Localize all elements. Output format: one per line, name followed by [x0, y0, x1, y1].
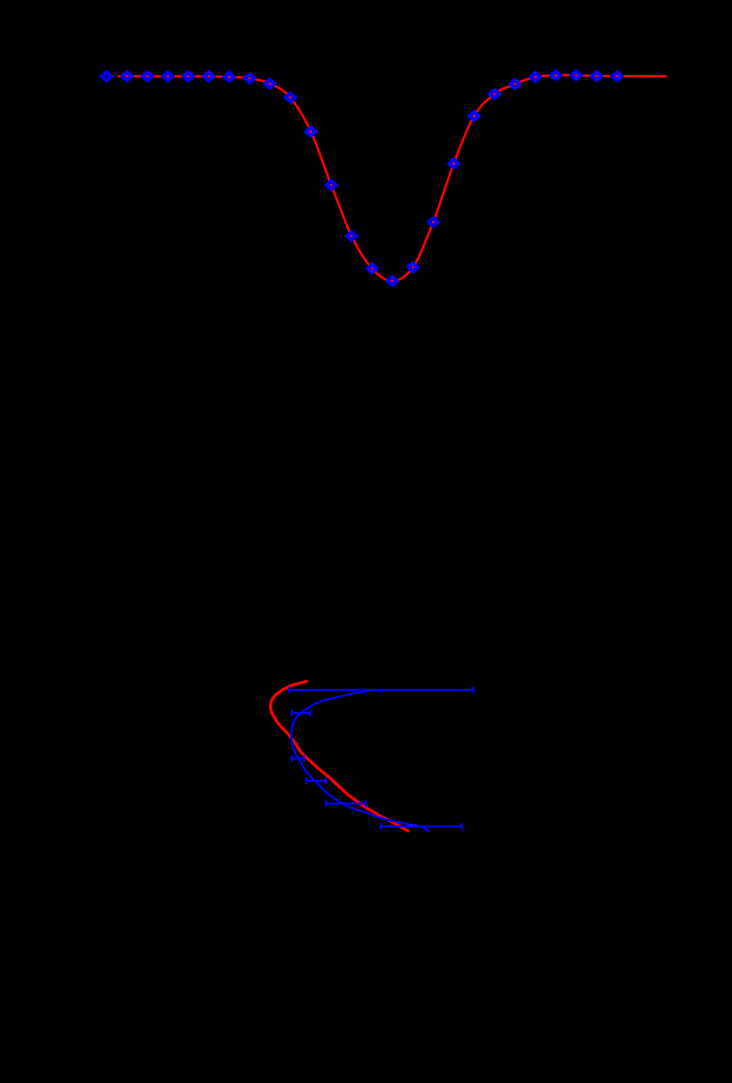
top plot: blue diamond data markers [99, 69, 624, 288]
error bar 6 [381, 823, 462, 830]
error bar 4 [306, 777, 326, 784]
bottom plot: red model curve [271, 681, 409, 831]
error bar 5 [326, 800, 366, 807]
error bar 1 [289, 687, 473, 694]
top plot: red model line [118, 75, 667, 281]
bottom plot: blue data curve [291, 690, 429, 832]
error bar 3 [292, 755, 304, 762]
error bar 2 [292, 710, 311, 717]
